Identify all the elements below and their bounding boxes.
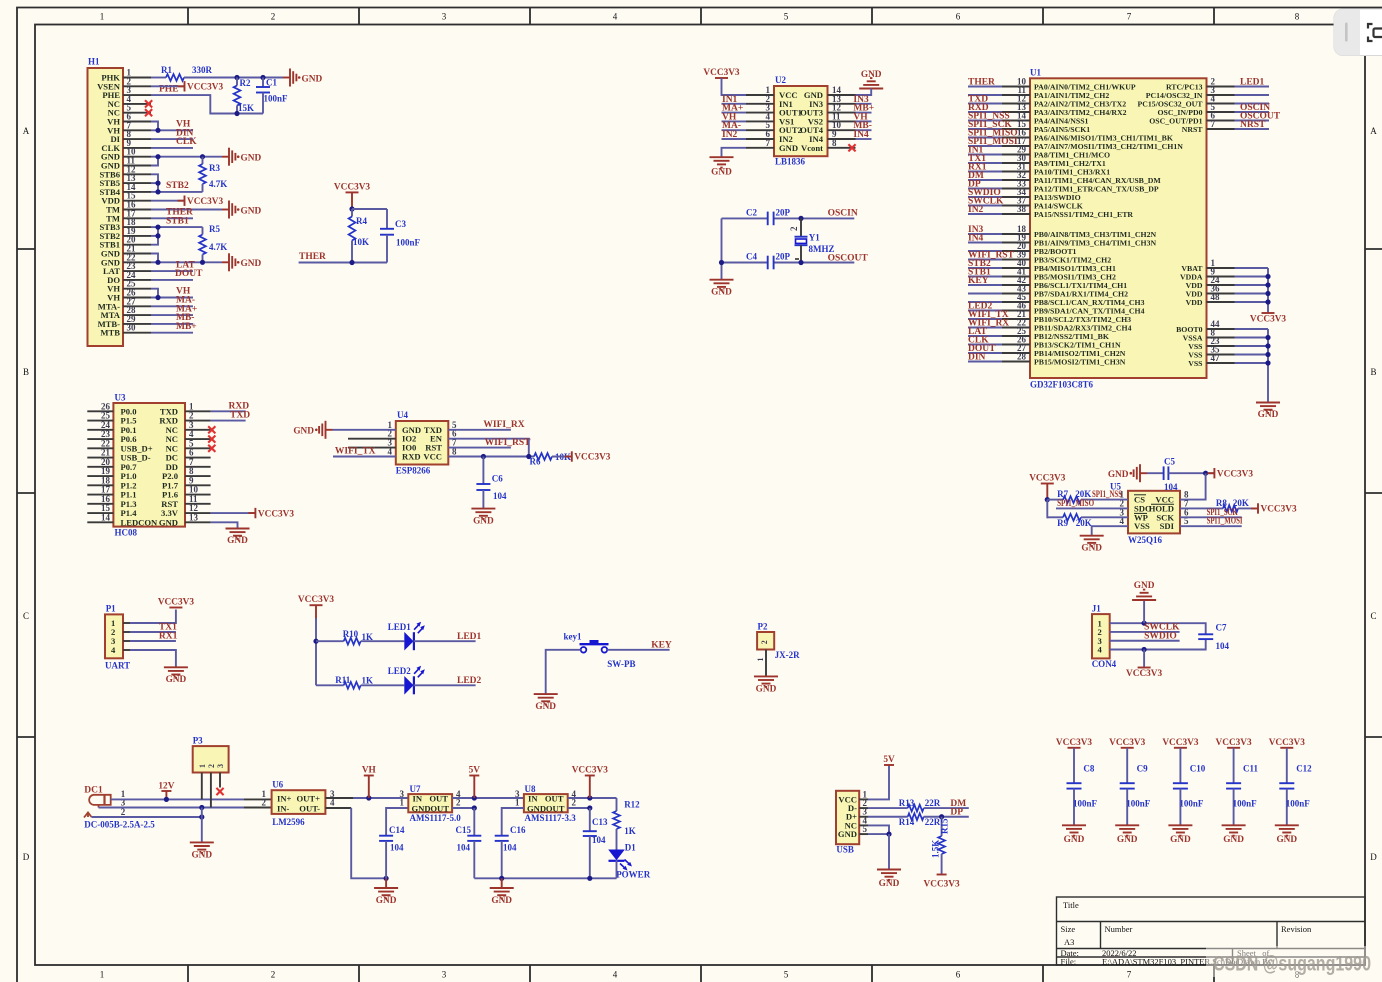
svg-text:OUT: OUT: [430, 803, 449, 813]
svg-text:SW-PB: SW-PB: [607, 659, 635, 669]
U3 pin 12 (3.3V): [185, 512, 211, 514]
svg-text:20K: 20K: [1075, 489, 1091, 499]
U2 pin 4: [746, 120, 774, 122]
svg-text:100nF: 100nF: [1073, 799, 1098, 809]
U1 pin 41 (PB5/MOSI1/TIM3_CH2): [1002, 276, 1030, 278]
svg-text:P3: P3: [193, 736, 203, 746]
H1 pin 28 (MTA): [123, 314, 151, 316]
H1 pin 25 (VH): [123, 288, 151, 290]
svg-text:GND: GND: [711, 288, 732, 298]
svg-text:LB1836: LB1836: [775, 157, 806, 167]
svg-text:P1: P1: [106, 604, 116, 614]
svg-text:GND: GND: [1108, 470, 1129, 480]
wire MA+ net (U2 pin3): [722, 112, 747, 114]
U1 pin 13 (PA3/AIN3/TIM2_CH4/RX2): [1002, 111, 1030, 113]
resistor R6 10K: [530, 452, 572, 466]
wire MA+ net (H1 pin28): [151, 314, 193, 316]
power VCC3V3 (C11): [1216, 738, 1253, 748]
svg-text:Vcont: Vcont: [801, 143, 823, 153]
ground GND (U5 pin4): [1080, 536, 1104, 554]
svg-text:VH: VH: [362, 766, 377, 776]
U3 pin 21 (USB_D-): [87, 457, 113, 459]
svg-text:Size: Size: [1061, 924, 1076, 934]
svg-text:20K: 20K: [1233, 498, 1249, 508]
U3 pin 4 (NC): [185, 438, 211, 440]
ground GND (C12): [1275, 825, 1299, 845]
U1 pin 47 (VSS): [1207, 362, 1235, 364]
U1 pin 44 (BOOT0): [1207, 328, 1235, 330]
wire IN3 net (U2 pin13): [856, 103, 872, 105]
svg-text:4: 4: [111, 645, 116, 655]
wire DC1 pin2 to GND: [92, 816, 202, 818]
svg-text:PB15/MOSI2/TIM1_CH3N: PB15/MOSI2/TIM1_CH3N: [1034, 357, 1126, 366]
svg-text:THER: THER: [299, 252, 326, 262]
wire TX1 net (P1 pin2): [130, 631, 176, 633]
svg-text:100nF: 100nF: [1233, 799, 1258, 809]
svg-text:DC-005B-2.5A-2.5: DC-005B-2.5A-2.5: [84, 820, 155, 830]
node junction pin10: [155, 154, 160, 159]
node junction C13 bottom: [587, 876, 592, 881]
wire MB+ net (U2 pin12): [856, 112, 872, 114]
wire R10 to LED1: [361, 640, 405, 642]
svg-text:8: 8: [1295, 12, 1300, 22]
ground GND (U4 pin1): [293, 421, 332, 439]
svg-text:USB: USB: [836, 845, 854, 855]
U3 pin 1 (TXD): [185, 410, 211, 412]
wire U4 pin6 (EN): [448, 439, 529, 457]
ground GND (H1 pin16): [222, 201, 261, 219]
node junction C13 top: [587, 805, 592, 810]
H1 pin 9 (CLK): [123, 147, 151, 149]
H1 pin 27 (MTA-): [123, 305, 151, 307]
node junction R10: [313, 639, 318, 644]
H1 pin 8 (DI): [123, 138, 151, 140]
capacitor C14 104: [379, 808, 408, 878]
svg-text:2: 2: [207, 764, 216, 768]
wire USB D- to R13: [868, 807, 908, 809]
svg-text:C9: C9: [1137, 764, 1148, 774]
svg-text:OUT+: OUT+: [296, 793, 320, 803]
svg-text:TXD: TXD: [230, 411, 250, 421]
wire U4 pin8 (VCC): [448, 456, 534, 458]
U1 pin 26 (PB13/SCK2/TIM1_CH1N): [1002, 344, 1030, 346]
node junction VCC tap: [1142, 647, 1147, 652]
svg-text:10K: 10K: [353, 237, 369, 247]
svg-text:WIFI_RX: WIFI_RX: [483, 420, 524, 430]
svg-text:22R: 22R: [925, 817, 941, 827]
resistor R1 330R: [161, 65, 213, 81]
wire R9 to U5 pin3: [1081, 516, 1128, 518]
wire R8 to VCC3V3: [1238, 507, 1258, 509]
wire VSS bus to GND: [1267, 329, 1269, 403]
svg-text:GND: GND: [527, 803, 546, 813]
wire RX1 net (P1 pin3): [130, 640, 176, 642]
svg-text:NRST: NRST: [1182, 125, 1204, 134]
svg-text:104: 104: [457, 843, 471, 853]
resistor R4 10K: [349, 209, 369, 263]
ground GND (C5 left): [1108, 464, 1147, 482]
U3 pin 20 (P0.7): [87, 466, 113, 468]
svg-text:C16: C16: [510, 825, 526, 835]
U1 pin 40 (PB4/MISO1/TIM3_CH1): [1002, 267, 1030, 269]
U3 pin 17 (P1.1): [87, 494, 113, 496]
node junction R4 bottom: [349, 260, 354, 265]
wire VH net (U2 pin4): [722, 120, 747, 122]
U2 pin 12: [828, 112, 856, 114]
resistor R14 22R: [899, 813, 941, 827]
svg-text:R7: R7: [1057, 489, 1068, 499]
svg-text:KEY: KEY: [651, 640, 672, 650]
connector P1 UART: [105, 604, 130, 671]
U2 pin 14: [828, 94, 856, 96]
wire U6 OUT- down to rail: [325, 807, 351, 809]
wire down to VCC3V3: [1143, 650, 1145, 668]
wire DOUT net (H1 pin24): [151, 279, 193, 281]
svg-text:1: 1: [198, 764, 207, 768]
svg-text:GND: GND: [1258, 410, 1279, 420]
U1 pin 36 (VDD): [1207, 293, 1235, 295]
U3 pin 7 (DD): [185, 466, 211, 468]
svg-text:6: 6: [956, 12, 961, 22]
svg-text:2: 2: [789, 226, 799, 231]
wire RXD net (U3 pin1): [211, 410, 246, 412]
capacitor C12 100nF: [1279, 748, 1312, 826]
wire GND drop: [201, 808, 203, 843]
svg-text:OUT: OUT: [429, 793, 448, 803]
wire USB NC/GND to GND: [868, 825, 889, 834]
power VCC3V3 (C5): [1207, 468, 1253, 479]
node junction C14 bottom: [384, 876, 389, 881]
U3 pin 8 (P2.0): [185, 475, 211, 477]
U2 pin 1: [746, 94, 774, 96]
IC U1 GD32F103C8T6: [1030, 68, 1207, 390]
U1 pin 6 (OSC_OUT/PD1): [1207, 120, 1235, 122]
capacitor C16 104: [495, 825, 526, 878]
wire to R10: [316, 640, 344, 642]
capacitor C7 104: [1198, 623, 1229, 652]
wire D1 to rail: [616, 860, 618, 878]
wire STB2 net (H1 pins 12,13,14): [151, 174, 203, 192]
svg-text:C7: C7: [1216, 623, 1227, 633]
power VCC3V3 (U3 pin12): [248, 508, 294, 519]
svg-text:C: C: [23, 611, 29, 621]
wire GND (H1 pin16): [151, 209, 222, 211]
node junction VDD bus: [1265, 299, 1270, 304]
svg-text:WIFI_RST: WIFI_RST: [485, 438, 532, 448]
svg-text:KEY: KEY: [968, 276, 989, 286]
svg-text:IN2: IN2: [968, 205, 984, 215]
capacitor C15 104: [456, 808, 482, 878]
U1 pin 38 (PA15/NSS1/TIM2_CH1_ETR): [1002, 213, 1030, 215]
svg-text:D: D: [1370, 852, 1377, 862]
node junction GND tap: [1142, 621, 1147, 626]
svg-text:HC08: HC08: [115, 528, 138, 538]
svg-text:DIN: DIN: [968, 353, 986, 363]
ground GND (U2 pin14): [859, 70, 883, 89]
capacitor C5 104: [1164, 457, 1178, 493]
resistor R10 1K: [343, 629, 373, 645]
svg-text:SPI1_NSS: SPI1_NSS: [1092, 490, 1122, 500]
svg-text:C5: C5: [1164, 457, 1175, 467]
wire DM net: [924, 807, 969, 809]
svg-text:C13: C13: [592, 817, 608, 827]
node junction VSS bus: [1265, 352, 1270, 357]
wire J1 pin4 to C7 bottom: [1110, 639, 1206, 649]
U3 pin 19 (P1.0): [87, 475, 113, 477]
wire MA- net (H1 pin27): [151, 305, 193, 307]
H1 pin 17 (TM): [123, 217, 151, 219]
svg-text:OUT: OUT: [546, 803, 565, 813]
svg-text:1: 1: [756, 658, 765, 662]
svg-text:4: 4: [1098, 645, 1103, 655]
wire U4 pin3: [348, 447, 396, 449]
wire U5 pin4 to GND: [1092, 526, 1128, 536]
svg-text:D1: D1: [625, 843, 636, 853]
svg-text:47: 47: [1211, 353, 1221, 363]
wire IN4 net (U2 pin9): [856, 138, 872, 140]
ground GND (C10): [1168, 825, 1192, 845]
svg-text:POWER: POWER: [616, 870, 651, 880]
svg-text:4: 4: [613, 12, 618, 22]
node junction pin7: [155, 128, 160, 133]
svg-text:2: 2: [572, 798, 577, 808]
resistor R7 20K: [1047, 489, 1091, 503]
svg-text:104: 104: [592, 835, 606, 845]
wire R4 top to C3 top: [352, 208, 387, 210]
svg-text:IN: IN: [528, 793, 538, 803]
svg-text:C10: C10: [1190, 764, 1206, 774]
svg-text:IN4: IN4: [968, 234, 984, 244]
svg-text:GND: GND: [535, 702, 556, 712]
svg-text:D: D: [23, 852, 30, 862]
USB pin 1 (VCC): [859, 798, 868, 800]
U1 pin 11 (PA1/AIN1/TIM2_CH2): [1002, 94, 1030, 96]
svg-text:H1: H1: [88, 57, 100, 67]
svg-text:IN: IN: [413, 793, 423, 803]
no-connect X U3 pin3: [208, 426, 215, 433]
svg-text:8: 8: [832, 138, 837, 148]
node junction C5/VCC: [1203, 471, 1208, 476]
wire U5 pin7 to R8: [1180, 507, 1223, 509]
svg-text:U3: U3: [115, 393, 126, 403]
U3 pin 25 (P1.5): [87, 420, 113, 422]
connector USB: [836, 789, 868, 854]
wire H1 pin1 to R1: [151, 77, 166, 79]
U3 pin 6 (DC): [185, 457, 211, 459]
svg-text:GND: GND: [756, 685, 777, 695]
svg-text:key1: key1: [564, 632, 583, 642]
connector P3: [193, 736, 229, 773]
svg-text:VCC3V3: VCC3V3: [187, 197, 224, 207]
svg-text:U2: U2: [775, 75, 786, 85]
resistor R12 1K: [613, 798, 640, 850]
node junction C6 tap: [481, 454, 486, 459]
wire to R11: [316, 684, 344, 686]
svg-text:RXD: RXD: [402, 452, 421, 462]
wire DP net: [924, 816, 969, 818]
resistor R9 20K: [1047, 514, 1091, 528]
U3 pin 11 (RST): [185, 503, 211, 505]
ground GND (C11): [1222, 825, 1246, 845]
svg-text:PA15/NSS1/TIM2_CH1_ETR: PA15/NSS1/TIM2_CH1_ETR: [1034, 210, 1133, 219]
ground GND (key1): [534, 694, 558, 712]
power VCC3V3 (R7/R9): [1029, 474, 1066, 500]
svg-text:2: 2: [262, 798, 267, 808]
svg-text:C14: C14: [389, 825, 405, 835]
U1 pin 33 (PA12/TIM1_ETR/CAN_TX/USB_DP): [1002, 188, 1030, 190]
node junction C16 bottom: [499, 876, 504, 881]
H1 pin 20 (STB1): [123, 244, 151, 246]
wire GND to C5: [1147, 472, 1164, 474]
svg-text:GND: GND: [473, 517, 494, 527]
U1 pin 35 (VSS): [1207, 354, 1235, 356]
svg-text:VCC3V3: VCC3V3: [572, 766, 609, 776]
node junction 12V: [164, 797, 169, 802]
U1 pin 23 (VSS): [1207, 345, 1235, 347]
wire VCC3V3 down to R10/R11: [315, 618, 317, 685]
node junction R2 top: [234, 75, 239, 80]
svg-text:4: 4: [330, 798, 335, 808]
wire VDD bus to VCC3V3: [1267, 268, 1269, 313]
wire VH net (H1 pins 6,7): [151, 122, 158, 131]
IC U5 W25Q16: [1110, 482, 1189, 546]
svg-text:GND: GND: [1223, 835, 1244, 845]
svg-text:100nF: 100nF: [1126, 799, 1151, 809]
svg-text:R4: R4: [356, 216, 367, 226]
svg-text:28: 28: [1017, 352, 1027, 362]
capacitor C4 20P: [746, 252, 791, 270]
svg-text:Revision: Revision: [1281, 924, 1312, 934]
no-connect X H1 pin5: [145, 109, 152, 116]
U3 pin 15 (P1.4): [87, 512, 113, 514]
svg-text:VCC3V3: VCC3V3: [703, 68, 740, 78]
crystal Y1 8MHZ: [789, 218, 835, 262]
H1 pin 23 (LAT): [123, 270, 151, 272]
svg-text:Y1: Y1: [809, 233, 820, 243]
wire MB+ net (H1 pin30): [151, 332, 193, 334]
svg-text:LEDCON: LEDCON: [121, 517, 159, 527]
svg-text:VCC: VCC: [423, 452, 442, 462]
svg-text:JX-2R: JX-2R: [775, 650, 800, 660]
svg-text:VCC3V3: VCC3V3: [158, 598, 195, 608]
U2 pin 2: [746, 103, 774, 105]
node junction USB GND: [886, 831, 891, 836]
resistor R13 22R: [899, 798, 941, 812]
svg-text:1: 1: [515, 798, 520, 808]
wire USB GND drop: [888, 834, 890, 869]
svg-text:MB+: MB+: [176, 322, 197, 332]
ground GND (DC input): [190, 842, 214, 860]
node junction R2 bottom: [234, 111, 239, 116]
P3 pin1 drop: [201, 773, 203, 800]
svg-text:GND: GND: [227, 536, 248, 546]
svg-text:GD32F103C8T6: GD32F103C8T6: [1030, 380, 1094, 390]
node junction VSS bus: [1265, 343, 1270, 348]
svg-text:LED1: LED1: [388, 622, 412, 632]
svg-text:A: A: [23, 126, 30, 136]
wire P1 pin4 to GND: [130, 650, 176, 667]
wire U2 pin7 to GND: [722, 148, 747, 157]
wire WIFI_TX net (U4 pin4): [333, 456, 396, 458]
svg-text:2: 2: [121, 807, 126, 817]
svg-text:1: 1: [100, 12, 105, 22]
svg-text:104: 104: [493, 491, 507, 501]
node junction pin14: [155, 189, 160, 194]
U2 pin 6: [746, 138, 774, 140]
H1 pin 16 (TM): [123, 209, 151, 211]
node junction pin13: [155, 181, 160, 186]
capacitor C9 100nF: [1120, 748, 1151, 826]
ground GND (C15/C16): [490, 878, 514, 906]
svg-text:104: 104: [1216, 641, 1230, 651]
svg-text:5V: 5V: [469, 766, 481, 776]
svg-text:104: 104: [390, 843, 404, 853]
resistor R11 1K: [335, 675, 373, 689]
wire R1 to GND: [184, 77, 283, 79]
svg-text:SPI1_MOSI: SPI1_MOSI: [1207, 517, 1243, 527]
wire STB1 net (H1 pins 18,19,20): [151, 227, 203, 245]
U1 pin 32 (PA11/TIM1_CH4/CAN_RX/USB_DM): [1002, 179, 1030, 181]
wire P2 to GND: [765, 650, 767, 677]
svg-text:7: 7: [1127, 12, 1132, 22]
U1 pin 31 (PA10/TIM1_CH3/RX1): [1002, 171, 1030, 173]
ground GND (H1 pin10 net): [222, 148, 261, 166]
svg-text:22R: 22R: [925, 798, 941, 808]
svg-text:C4: C4: [746, 252, 757, 262]
capacitor C11 100nF: [1226, 748, 1258, 826]
wire R6 to VCC3V3: [552, 456, 571, 458]
U1 pin 42 (PB6/SCL1/TX1/TIM4_CH1): [1002, 284, 1030, 286]
wire SPI1_SCK net (U5 pin6): [1180, 516, 1242, 518]
svg-text:J1: J1: [1092, 604, 1102, 614]
svg-text:7: 7: [1211, 119, 1216, 129]
svg-text:GND: GND: [241, 154, 262, 164]
svg-text:104: 104: [1164, 482, 1178, 492]
connector DC1 DC-005B-2.5A-2.5: [84, 786, 155, 830]
diode LED1: [388, 622, 425, 651]
H1 pin 11 (GND): [123, 165, 151, 167]
U2 pin 10: [828, 129, 856, 131]
wire MB- net (H1 pin29): [151, 323, 193, 325]
U1 pin 7 (NRST): [1207, 128, 1235, 130]
wire WIFI_RX net (U4 pin5): [448, 429, 511, 431]
svg-text:1.5K: 1.5K: [931, 840, 941, 858]
resistor R2 15K: [234, 78, 254, 114]
wire GND net (H1 pins 21,22): [151, 254, 158, 263]
svg-text:SWDIO: SWDIO: [1144, 631, 1177, 641]
U1 pin 25 (PB12/NSS2/TIM1_BK): [1002, 335, 1030, 337]
resistor R5 4.7K: [199, 224, 227, 262]
ground GND (C9): [1115, 825, 1139, 845]
U2 pin 13: [828, 103, 856, 105]
wire GND net (H1 pins 10,11): [151, 157, 158, 166]
power VCC3V3 (C10): [1162, 738, 1199, 748]
svg-text:LED1: LED1: [1240, 78, 1265, 88]
H1 pin 21 (GND): [123, 253, 151, 255]
svg-text:VSS: VSS: [1188, 359, 1202, 368]
svg-text:File:: File:: [1061, 956, 1077, 966]
H1 pin 4 (NC): [123, 103, 151, 105]
ground GND (C8): [1062, 825, 1086, 845]
wire U6 OUT+ to U7 IN: [325, 797, 353, 799]
svg-text:B: B: [23, 367, 29, 377]
H1 pin 13 (STB5): [123, 182, 151, 184]
wire SPI1_MISO net (U5 pin2): [1056, 507, 1128, 509]
H1 pin 14 (STB4): [123, 191, 151, 193]
regulator U6 LM2596: [262, 780, 336, 828]
node junction 5V: [472, 795, 477, 800]
power VCC3V3 (R6): [565, 451, 611, 462]
